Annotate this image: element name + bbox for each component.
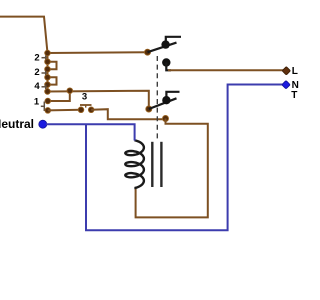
wire from mains feed, top left horizontal: [0, 17, 48, 53]
relay contact 1 common node: [145, 49, 151, 55]
switch 3 actuator stem: [85, 105, 87, 108]
node terminal 1b: [45, 108, 51, 114]
svg-text:2: 2: [34, 67, 39, 78]
relay contact 1 NO dot: [161, 40, 169, 48]
terminal tick 4: [42, 85, 47, 90]
relay core bar left: [151, 142, 153, 187]
switch 3 actuator bar: [80, 104, 92, 106]
terminal tick 2: [42, 56, 47, 61]
node jumper top: [45, 59, 51, 65]
relay contact 2 lower terminal dot: [163, 116, 169, 122]
svg-text:2: 2: [34, 52, 39, 63]
wire contact 2 terminal to coil bottom: [136, 119, 208, 218]
switch 3 contact a: [78, 107, 84, 113]
svg-text:L: L: [292, 66, 298, 77]
svg-text:Neutral: Neutral: [0, 117, 34, 131]
jumper link terminals 2-2: [48, 62, 57, 69]
relay contact 2 NO stub: [166, 92, 179, 99]
node terminal 1a: [45, 98, 51, 104]
wire neutral to coil top: [46, 124, 135, 140]
wire terminal strip vertical bus: [47, 53, 49, 92]
node jumper bottom: [45, 66, 51, 72]
relay core bar right: [160, 142, 162, 187]
jumper link terminals 2-4: [48, 77, 57, 84]
wire jumper terminal 1 to bus: [48, 91, 70, 101]
svg-text:1: 1: [34, 96, 40, 107]
relay contact 2 lever: [149, 98, 177, 109]
terminal dot Neutral: [39, 120, 47, 128]
node jumper2 top: [45, 75, 51, 81]
relay contact 2 common node: [146, 106, 152, 112]
terminal dot L: [282, 67, 290, 75]
relay contact 1 output stub: [166, 63, 171, 71]
wire contact 1 output to L terminal: [168, 69, 285, 71]
relay contact 2 NO dot: [162, 96, 170, 104]
node terminal 4 bottom: [45, 89, 51, 95]
node terminal 2a: [45, 50, 51, 56]
wire terminal 4 to relay contact 2 common: [48, 91, 149, 109]
wire terminal 1 to switch 3: [48, 109, 81, 112]
node jumper2 bottom: [45, 82, 51, 88]
dashed armature linkage: [156, 56, 158, 140]
svg-text:4: 4: [34, 81, 40, 92]
wire neutral loop left-bottom-right: [86, 85, 285, 231]
relay coil winding: [125, 140, 144, 188]
node junction at bus: [67, 88, 73, 94]
relay contact 1 NO stub: [166, 37, 181, 43]
terminal tick 2b: [42, 71, 47, 76]
svg-text:3: 3: [82, 92, 87, 103]
relay contact 1 lever: [148, 43, 177, 53]
wire to relay contact 1 common: [48, 51, 148, 54]
relay contact 1 output dot: [162, 58, 170, 66]
wire switch 3 to contact 2 lower terminal: [91, 109, 164, 119]
switch 3 contact b: [88, 107, 94, 113]
terminal dot N: [282, 80, 290, 88]
svg-text:T: T: [291, 90, 297, 101]
terminal tick 1: [41, 102, 45, 112]
